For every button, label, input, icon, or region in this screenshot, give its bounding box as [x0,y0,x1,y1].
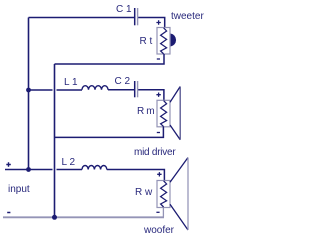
tweeter dome (filled) [171,34,176,47]
wire: L2 to woofer drop [107,170,165,181]
wire: input plus lead y=169.5 (gap at minus bus crossing) [5,169,53,171]
wire: woofer minus drop to bottom rail [162,208,164,218]
wire: plus bus vertical x=28.5 from top rail to input row [28,18,30,170]
capacitor C1 [134,8,136,25]
label C1 [116,5,132,15]
label L1 [64,78,78,88]
wire: mid minus drop and return to minus bus y=137.8 [55,127,164,138]
label Rt [140,37,153,47]
label woofer [144,226,174,236]
wire: tweeter minus drop and return to minus bus y=64 [55,54,165,64]
resistor Rt zigzag (tweeter voice coil) [161,28,167,54]
label tweeter [171,12,204,22]
inductor L1 (4 humps) [82,86,108,90]
label Rm [137,107,154,117]
capacitor C2 [134,81,136,97]
node: junction dot plus-bus / L1 row [26,88,31,93]
polarity: tweeter plus [156,20,160,24]
node: junction dot plus-bus / input row [26,167,31,172]
label L2 [62,158,76,168]
polarity: woofer minus [156,211,159,213]
node: junction dot minus-bus / bottom rail [52,215,57,220]
label C2 [115,77,131,87]
woofer cone [170,158,188,231]
wire: L1 to C2 [108,89,134,91]
polarity: mid plus [156,93,160,97]
wire: bottom rail y=217.3 (minus lead) [3,216,164,218]
label input [8,185,30,195]
polarity: mid minus [157,132,160,134]
wire: C2 to mid driver drop [138,90,164,101]
mid driver cone [170,87,180,140]
inductor L2 (4 humps) [82,166,107,170]
mid driver rectangle (driver box) [157,100,170,127]
wire: top rail y=17.5 left segment to C1 [29,17,135,19]
wire: L1 row y=90 from plus bus (gap at minus bus crossing) [29,89,53,91]
tweeter rectangle (driver box) [157,28,170,55]
wire: top rail y=17.5 right segment C1 to tweeter drop [138,18,165,28]
resistor Rm zigzag (mid voice coil) [161,101,167,127]
resistor Rw zigzag (woofer voice coil) [161,181,167,207]
wire: minus bus vertical x=54.5 down to bottom rail [54,64,56,217]
terminal: input plus sign [6,162,11,167]
woofer rectangle (driver box) [157,181,170,208]
terminal: input minus sign [7,212,10,214]
polarity: woofer plus [157,172,161,176]
polarity: tweeter minus [157,58,160,60]
label Rw [135,188,152,198]
label mid driver [134,148,175,158]
